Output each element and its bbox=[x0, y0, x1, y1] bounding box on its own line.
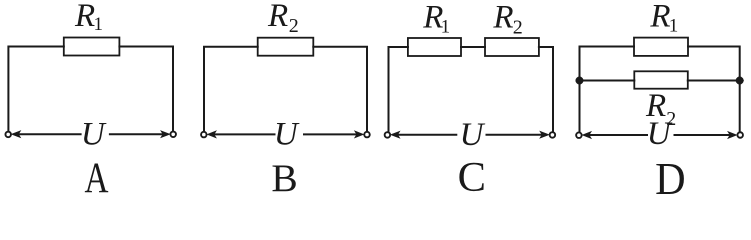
svg-text:R: R bbox=[267, 0, 288, 34]
svg-text:1: 1 bbox=[669, 16, 679, 37]
svg-text:1: 1 bbox=[94, 14, 104, 35]
svg-text:B: B bbox=[271, 156, 297, 195]
svg-text:U: U bbox=[647, 116, 673, 152]
U arrow right (C) bbox=[487, 131, 549, 138]
svg-text:U: U bbox=[460, 117, 486, 153]
svg-text:A: A bbox=[85, 155, 109, 195]
U arrow left (D) bbox=[582, 132, 647, 139]
resistor R2 (C) bbox=[485, 38, 539, 56]
svg-text:R: R bbox=[74, 0, 95, 34]
wire D top right from resistor R1 bbox=[688, 47, 740, 133]
resistor R1 (C) bbox=[408, 38, 461, 56]
label R2 (D) bbox=[645, 88, 676, 130]
svg-text:R: R bbox=[492, 0, 513, 36]
svg-text:2: 2 bbox=[513, 17, 523, 39]
label R2 (B) bbox=[267, 0, 299, 37]
U arrow left (C) bbox=[391, 131, 457, 138]
resistor R1 (A) bbox=[64, 38, 120, 56]
resistor R1 (D) bbox=[634, 38, 688, 56]
wire D left side bbox=[580, 47, 635, 133]
terminal circle D left bbox=[576, 132, 582, 138]
U arrow right (A) bbox=[110, 131, 170, 138]
junction dot D right bbox=[736, 77, 744, 85]
wire C left+top to resistor R1 bbox=[389, 47, 408, 132]
wire A left+top to resistor bbox=[8, 47, 63, 132]
resistor R2 (D) bbox=[634, 71, 688, 88]
svg-text:1: 1 bbox=[441, 17, 451, 38]
wire B top right from resistor bbox=[313, 47, 367, 132]
svg-text:R: R bbox=[649, 0, 670, 35]
wire A top right from resistor bbox=[119, 47, 173, 132]
U arrow left (A) bbox=[12, 131, 81, 138]
svg-text:C: C bbox=[458, 154, 486, 195]
terminal circle D right bbox=[737, 132, 743, 138]
U arrow right (D) bbox=[675, 132, 737, 139]
svg-text:2: 2 bbox=[289, 15, 299, 37]
terminal circle A right bbox=[170, 132, 176, 138]
wire C between resistors bbox=[461, 46, 485, 48]
label R1 (C) bbox=[422, 0, 450, 38]
resistor R2 (B) bbox=[258, 38, 314, 56]
wire D middle branch left bbox=[580, 80, 635, 82]
U arrow right (B) bbox=[304, 131, 364, 138]
wire C top right from resistor R2 bbox=[539, 47, 553, 131]
junction dot D left bbox=[576, 77, 584, 85]
label R2 (C) bbox=[492, 0, 522, 39]
svg-text:U: U bbox=[274, 116, 300, 152]
terminal circle C left bbox=[385, 132, 391, 138]
U arrow left (B) bbox=[207, 131, 274, 138]
terminal circle A left bbox=[5, 132, 11, 138]
wire B left+top to resistor bbox=[204, 47, 258, 132]
svg-text:U: U bbox=[81, 117, 107, 153]
terminal circle C right bbox=[550, 132, 556, 138]
label R1 (D) bbox=[649, 0, 678, 37]
svg-text:D: D bbox=[655, 153, 686, 195]
label R1 (A) bbox=[74, 0, 103, 35]
terminal circle B left bbox=[201, 132, 207, 138]
wire D middle branch right bbox=[688, 80, 740, 82]
terminal circle B right bbox=[364, 132, 370, 138]
